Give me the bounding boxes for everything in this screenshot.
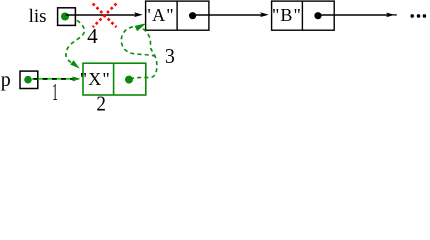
arrowhead B to rest [386,13,395,18]
node X divider [113,63,115,95]
svg-text:4: 4 [87,24,98,48]
wire p to node X black dashes [34,78,74,80]
node A divider [176,1,178,30]
node A pointer dot [189,12,196,19]
node X pointer dot [125,76,133,84]
svg-text:"B": "B" [272,5,302,25]
arrowhead lis to X [70,60,80,68]
node B divider [301,1,303,30]
pointer box lis [58,8,76,26]
node B box [272,1,335,30]
pointer dot lis [61,13,69,21]
svg-text:2: 2 [96,91,106,112]
wire p to node X green base [32,78,74,80]
dashed link lis to X (step 4 curve) [66,20,85,64]
svg-text:"A": "A" [144,5,175,25]
pointer dot p [24,76,32,84]
ellipsis dots [411,14,414,17]
wire B to rest of list [322,14,389,16]
arrowhead X next to A [135,23,147,31]
arrowhead p to X [73,76,81,81]
svg-text:3: 3 [165,44,175,68]
node B pointer dot [314,12,321,19]
svg-text:p: p [1,69,11,91]
wire stub after arrowhead [393,14,397,16]
node A box [146,1,209,30]
red cross leg 1 [93,4,117,28]
wire A to B [196,14,262,16]
pointer box p [20,71,38,88]
svg-text:1: 1 [52,80,58,106]
svg-text:lis: lis [29,6,47,27]
arrowhead lis to A [134,12,143,17]
arrowhead A to B [260,12,269,17]
dashed link X next to A (step 3 curve) [121,27,157,79]
red cross leg 2 [93,4,117,28]
wire lis to node A (old link) [66,14,136,16]
node X box (new node) [83,63,146,95]
svg-text:"X": "X" [80,69,111,89]
